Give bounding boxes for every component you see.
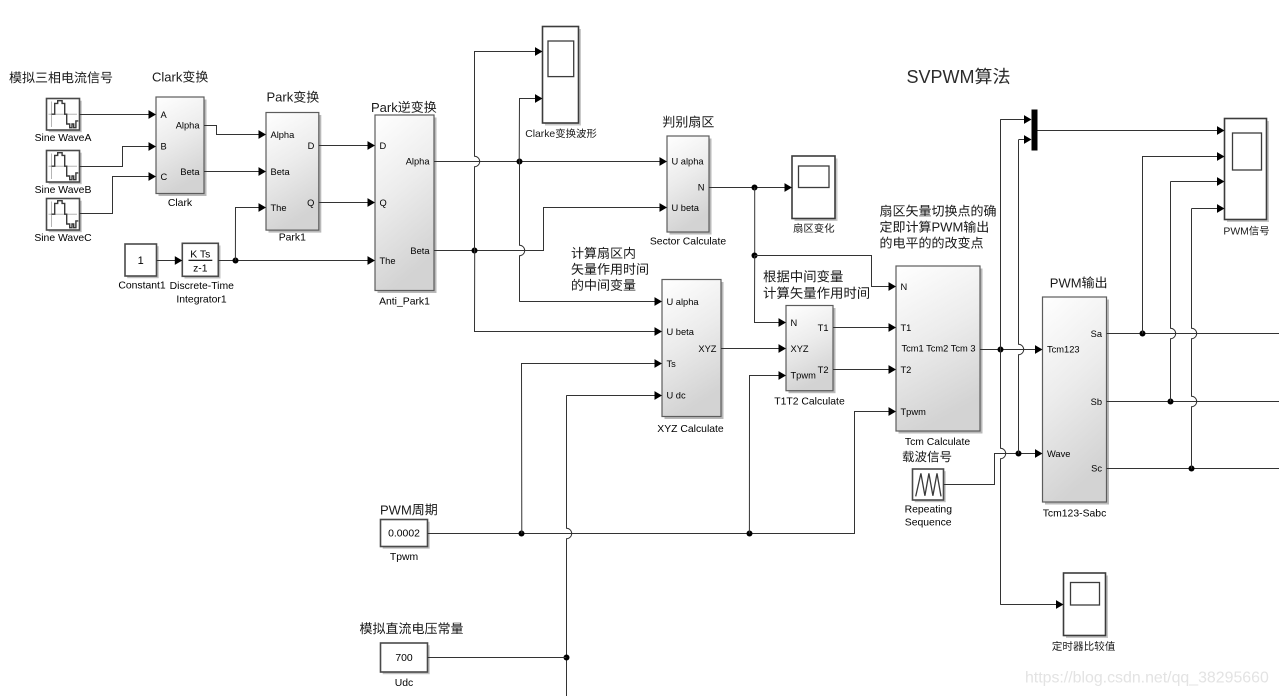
annotation 矢量作用时间: [572, 263, 648, 275]
annotation 的电平的的改变点: [881, 237, 983, 249]
svg-text:Alpha: Alpha: [406, 157, 431, 167]
wire XYZ.out -> T1T2.XYZ: [721, 348, 779, 350]
block Constant1: [127, 246, 159, 278]
label 定时器比较值: [1052, 641, 1115, 651]
svg-text:Clark: Clark: [152, 70, 183, 85]
wire Tpwm -> Tcm.Tpwm: [428, 412, 889, 534]
svg-text:XYZ: XYZ: [791, 344, 809, 354]
svg-text:U alpha: U alpha: [667, 297, 700, 307]
wire Tpwm net -> XYZ.Ts: [522, 364, 656, 534]
svg-text:U beta: U beta: [672, 203, 700, 213]
annotation 载波信号: [903, 451, 952, 463]
svg-text:A: A: [161, 110, 168, 120]
wire The net -> Park1.The: [235, 208, 259, 261]
block Udc: [383, 645, 430, 674]
svg-text:XYZ Calculate: XYZ Calculate: [657, 424, 724, 435]
annotation 的中间变量: [572, 279, 635, 291]
svg-text:Repeating: Repeating: [905, 504, 953, 515]
subsystem block Tcm Calculate: [899, 269, 983, 434]
block Sine WaveC: [49, 201, 82, 233]
annotation 计算矢量作用时间: [764, 287, 869, 299]
block Sine WaveB: [49, 153, 82, 185]
junction N net a: [752, 185, 758, 191]
wire Sc net -> PWM scope in4: [1192, 208, 1218, 210]
svg-text:Park: Park: [371, 100, 398, 115]
mux bar: [1032, 110, 1038, 151]
svg-text:Discrete-Time: Discrete-Time: [170, 281, 234, 292]
annotation 扇区矢量切换点的确: [880, 205, 996, 217]
junction Wave net: [1016, 451, 1022, 457]
block Tpwm: [383, 522, 430, 549]
wire RepeatingSequence -> Tcm123Sabc.Wave: [944, 454, 1036, 485]
junction Sa net: [1140, 331, 1146, 337]
block Repeating Sequence: [915, 471, 946, 502]
subsystem block Park1: [269, 115, 322, 233]
wire Tcm.out -> Tcm123Sabc.Tcm123: [980, 349, 1036, 351]
block Sine WaveA: [49, 101, 82, 133]
wire SineWaveC -> Clark.C: [80, 177, 150, 214]
svg-text:K Ts: K Ts: [190, 250, 210, 261]
wire T1T2.T1 -> Tcm.T1: [833, 327, 889, 329]
label 扇区变化: [793, 223, 834, 233]
annotation 模拟三相电流信号: [9, 71, 112, 83]
wire SineWaveB -> Clark.B: [80, 147, 150, 167]
svg-text:The: The: [271, 203, 287, 213]
wire Wave net -> mux in2: [1019, 139, 1025, 141]
wire AntiPark1.Beta -> Sector.Ubeta: [434, 208, 660, 251]
wire Sector.N -> sector scope: [709, 187, 785, 189]
scope block PWM信号: [1227, 121, 1269, 222]
svg-text:Tcm Calculate: Tcm Calculate: [905, 437, 970, 448]
wire Tpwm net -> T1T2.Tpwm: [749, 376, 779, 534]
junction Sc net: [1189, 466, 1195, 472]
svg-text:U dc: U dc: [667, 391, 686, 401]
wire N net -> Tcm.N: [755, 256, 889, 287]
wire Clark.Beta -> Park1.Beta: [204, 171, 259, 173]
svg-text:C: C: [161, 172, 168, 182]
svg-text:Tcm123-Sabc: Tcm123-Sabc: [1043, 509, 1107, 520]
svg-text:D: D: [308, 141, 315, 151]
wire Sb net up: [1171, 182, 1176, 402]
wire Alpha net -> XYZ.Ualpha: [519, 301, 655, 303]
wire Integrator1 -> AntiPark1.The: [218, 260, 368, 262]
annotation 判别扇区: [663, 116, 714, 128]
svg-text:N: N: [698, 183, 705, 193]
wire Sa net -> PWM scope in2: [1142, 156, 1218, 158]
svg-text:The: The: [380, 256, 396, 266]
wire Beta net -> XYZ.Ubeta: [475, 251, 656, 332]
svg-text:Sine WaveA: Sine WaveA: [35, 133, 92, 144]
svg-text:Tpwm: Tpwm: [390, 552, 418, 563]
svg-text:Anti_Park1: Anti_Park1: [379, 297, 430, 308]
svg-text:Sine WaveB: Sine WaveB: [35, 185, 92, 196]
svg-text:Integrator1: Integrator1: [176, 294, 226, 305]
svg-text:Park: Park: [267, 90, 294, 105]
subsystem block Clark: [159, 100, 207, 197]
svg-text:Beta: Beta: [180, 167, 200, 177]
annotation 模拟直流电压常量: [360, 622, 463, 634]
svg-text:1: 1: [138, 255, 144, 267]
junction Tpwm net a: [519, 531, 525, 537]
svg-text:Constant1: Constant1: [118, 281, 166, 292]
wire AntiPark1.Alpha -> Sector.Ualpha: [434, 161, 660, 163]
svg-text:T1: T1: [901, 323, 912, 333]
svg-text:T2: T2: [901, 365, 912, 375]
wire Tcm net down: [1001, 350, 1006, 605]
subsystem block XYZ Calculate: [665, 282, 724, 419]
wire Constant1 -> Integrator1: [157, 260, 176, 262]
wire Sb -> right edge: [1107, 401, 1279, 403]
svg-text:N: N: [901, 282, 908, 292]
wire Udc net -> XYZ.Udc: [566, 395, 655, 397]
svg-text:Q: Q: [307, 198, 314, 208]
svg-text:Beta: Beta: [271, 167, 291, 177]
wire Tcm net -> timer scope: [1000, 604, 1056, 606]
svg-text:Clark: Clark: [168, 198, 193, 209]
annotation 根据中间变量: [764, 270, 843, 283]
wire Sa -> right edge: [1107, 333, 1279, 335]
svg-text:Sine WaveC: Sine WaveC: [34, 233, 92, 244]
block Discrete-Time Integrator1: [185, 246, 221, 279]
subsystem block T1T2 Calculate: [789, 308, 836, 393]
scope block 扇区变化: [795, 159, 838, 222]
svg-text:D: D: [380, 141, 387, 151]
svg-text:B: B: [161, 141, 167, 151]
wire Alpha net -> Clarke scope in2: [519, 99, 535, 162]
junction Sb net: [1168, 399, 1174, 405]
wire Alpha net down: [520, 162, 525, 302]
svg-text:U beta: U beta: [667, 327, 695, 337]
wire Clark.Alpha -> Park1.Alpha: [204, 126, 259, 135]
svg-text:Sector Calculate: Sector Calculate: [650, 237, 726, 248]
junction N net b: [752, 253, 758, 259]
svg-text:https://blog.csdn.net/qq_38295: https://blog.csdn.net/qq_38295660: [1025, 670, 1269, 687]
wire N net -> T1T2.N: [755, 256, 780, 323]
svg-text:700: 700: [395, 653, 413, 664]
wire Tcm net -> mux in1: [1000, 119, 1024, 121]
svg-text:T2: T2: [818, 365, 829, 375]
wire Park1.Q -> AntiPark1.Q: [319, 202, 368, 204]
scope block Clarke变换波形: [545, 29, 581, 126]
svg-text:Ts: Ts: [667, 359, 677, 369]
svg-text:Sa: Sa: [1091, 329, 1103, 339]
annotation 计算扇区内: [572, 247, 635, 259]
subsystem block Sector Calculate: [670, 139, 712, 235]
junction Alpha net: [517, 159, 523, 165]
svg-text:Sc: Sc: [1091, 464, 1102, 474]
wire Udc net vertical: [567, 396, 572, 696]
svg-text:SVPWM: SVPWM: [907, 67, 975, 87]
svg-text:z-1: z-1: [193, 264, 208, 275]
wire Beta net -> Clarke scope in1: [475, 52, 536, 251]
wire Park1.D -> AntiPark1.D: [319, 145, 368, 147]
scope block 定时器比较值: [1066, 576, 1108, 639]
wire Udc const -> Udc net: [428, 657, 567, 659]
svg-text:Clarke: Clarke: [525, 129, 555, 140]
svg-text:PWM: PWM: [1050, 275, 1082, 290]
junction Beta net: [472, 248, 478, 254]
subsystem block Tcm123-Sabc: [1045, 300, 1109, 505]
svg-text:Sequence: Sequence: [905, 517, 952, 528]
svg-text:Alpha: Alpha: [271, 130, 296, 140]
wire Sa net up: [1142, 157, 1144, 334]
svg-text:Beta: Beta: [410, 246, 430, 256]
wire Sc -> right edge: [1107, 468, 1279, 470]
wire mux -> PWM scope in1: [1038, 130, 1218, 132]
svg-text:0.0002: 0.0002: [388, 529, 420, 540]
svg-text:Udc: Udc: [395, 678, 413, 689]
svg-text:Sb: Sb: [1091, 397, 1102, 407]
svg-text:N: N: [791, 318, 798, 328]
svg-text:Tpwm: Tpwm: [791, 371, 817, 381]
svg-text:Park1: Park1: [279, 233, 306, 244]
svg-text:PWM: PWM: [932, 220, 964, 235]
svg-text:T1: T1: [818, 323, 829, 333]
svg-text:PWM: PWM: [1223, 227, 1248, 238]
wire N net down: [754, 188, 756, 256]
svg-text:Tcm1 Tcm2 Tcm 3: Tcm1 Tcm2 Tcm 3: [901, 344, 975, 354]
junction Tpwm net b: [747, 531, 753, 537]
annotation 定即计算PWM输出: [880, 221, 931, 233]
svg-text:Wave: Wave: [1047, 449, 1070, 459]
svg-text:Alpha: Alpha: [176, 120, 201, 130]
svg-text:Tpwm: Tpwm: [901, 407, 927, 417]
junction The net: [233, 258, 239, 264]
subsystem block Anti_Park1: [378, 118, 437, 294]
wire Wave net up: [1019, 140, 1024, 454]
svg-text:Tcm123: Tcm123: [1047, 344, 1080, 354]
svg-text:T1T2 Calculate: T1T2 Calculate: [774, 397, 845, 408]
wire T1T2.T2 -> Tcm.T2: [833, 369, 889, 371]
svg-text:XYZ: XYZ: [698, 344, 716, 354]
wire Sb net -> PWM scope in3: [1170, 181, 1217, 183]
wire Tcm net up: [1000, 120, 1002, 350]
svg-text:U alpha: U alpha: [672, 157, 705, 167]
wire SineWaveA -> Clark.A: [80, 114, 150, 116]
wire Sc net up: [1192, 209, 1197, 469]
junction Udc junction: [564, 655, 570, 661]
svg-text:Q: Q: [380, 198, 387, 208]
svg-text:PWM: PWM: [380, 502, 412, 517]
junction Tcm net: [998, 347, 1004, 353]
